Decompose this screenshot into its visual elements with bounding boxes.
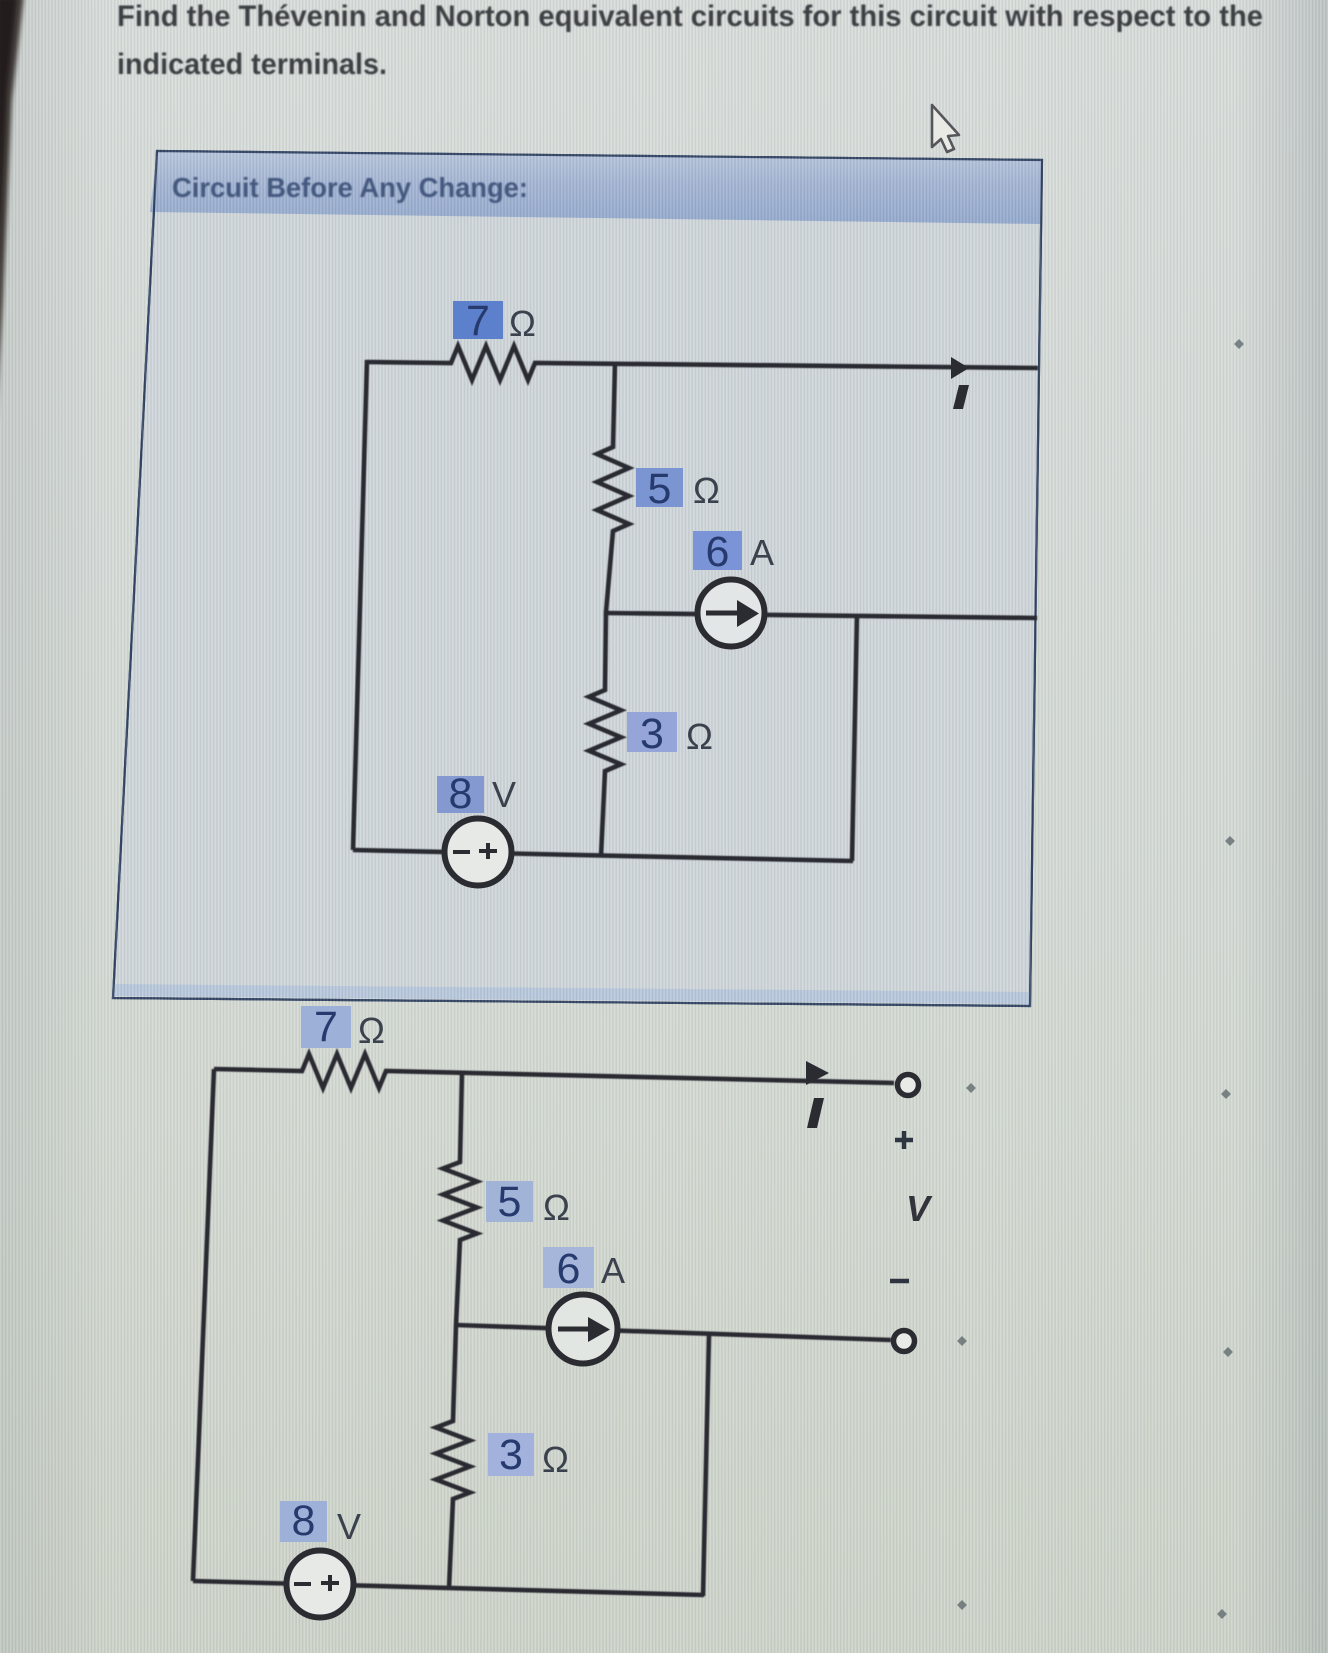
svg-text:Find the Thévenin and Norton e: Find the Thévenin and Norton equivalent … [117, 0, 1263, 33]
svg-text:A: A [601, 1250, 625, 1291]
svg-text:5: 5 [648, 465, 672, 513]
svg-text:A: A [750, 532, 774, 573]
svg-text:5: 5 [498, 1178, 522, 1226]
svg-text:Circuit Before Any Change:: Circuit Before Any Change: [172, 172, 528, 203]
svg-text:Ω: Ω [509, 303, 536, 344]
svg-text:Ω: Ω [358, 1010, 385, 1051]
svg-text:3: 3 [499, 1431, 523, 1479]
svg-text:7: 7 [466, 297, 490, 345]
svg-text:6: 6 [706, 528, 730, 576]
svg-text:7: 7 [314, 1003, 338, 1051]
svg-text:Ω: Ω [693, 470, 720, 511]
svg-text:V: V [492, 774, 516, 815]
svg-text:V: V [337, 1506, 361, 1547]
svg-text:Ω: Ω [543, 1187, 570, 1228]
svg-text:Ω: Ω [686, 716, 713, 757]
svg-text:6: 6 [557, 1245, 581, 1293]
svg-text:V: V [906, 1188, 933, 1229]
svg-text:3: 3 [640, 710, 664, 758]
svg-text:8: 8 [449, 770, 473, 818]
svg-text:Ω: Ω [542, 1439, 569, 1480]
svg-text:8: 8 [292, 1497, 316, 1545]
svg-text:indicated terminals.: indicated terminals. [117, 48, 387, 81]
